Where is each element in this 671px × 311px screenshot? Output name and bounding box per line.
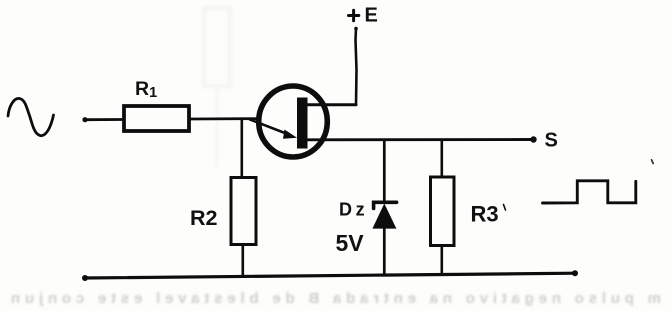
svg-text:Dz: Dz <box>339 200 368 220</box>
svg-text:5V: 5V <box>336 230 365 256</box>
svg-text:S: S <box>545 130 558 152</box>
svg-text:R2: R2 <box>190 206 218 230</box>
svg-text:R3: R3 <box>471 202 499 227</box>
svg-text:E: E <box>365 5 378 27</box>
